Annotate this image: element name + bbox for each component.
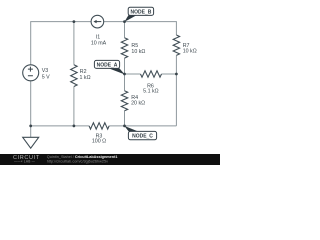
wire bottom-left segment	[31, 125, 89, 127]
resistor R6	[141, 71, 162, 77]
junction node B	[123, 20, 126, 23]
label I1	[91, 35, 107, 47]
junction ground	[29, 125, 32, 128]
resistor R2	[71, 65, 77, 87]
junction node A	[123, 73, 126, 76]
wire R2 column top lead	[73, 22, 75, 65]
svg-text:R5: R5	[131, 43, 138, 49]
svg-text:NODE_B: NODE_B	[130, 9, 151, 15]
wire NODE_A to R6	[125, 73, 141, 75]
junction bottom R2	[73, 125, 76, 128]
node NODE_A	[94, 60, 124, 74]
svg-text:20 kΩ: 20 kΩ	[131, 101, 145, 107]
svg-text:1 kΩ: 1 kΩ	[80, 75, 91, 81]
wire top-left segment	[31, 22, 91, 65]
junction R6-R7	[175, 73, 178, 76]
resistor R5	[121, 38, 127, 58]
svg-text:NODE_C: NODE_C	[132, 134, 153, 140]
svg-text:5 V: 5 V	[42, 74, 50, 80]
wire R2 column bottom lead	[73, 87, 75, 126]
ground	[23, 126, 39, 148]
current source I1	[91, 15, 104, 28]
wire left column below V3	[30, 81, 32, 126]
svg-text:V3: V3	[42, 68, 49, 74]
resistor R4	[121, 91, 127, 111]
voltage source V3	[23, 65, 39, 81]
label R5	[131, 43, 145, 55]
wire top-right segment	[104, 22, 177, 35]
svg-text:5.1 kΩ: 5.1 kΩ	[143, 89, 158, 95]
svg-text:100 Ω: 100 Ω	[92, 139, 106, 145]
wire right column R7 leads	[175, 55, 177, 126]
label R4	[131, 95, 145, 107]
wire R5 to NODE_A	[124, 58, 126, 74]
svg-text:10 kΩ: 10 kΩ	[131, 49, 145, 55]
svg-text:——× LAB —: ——× LAB —	[14, 160, 36, 164]
wire bottom-right segment	[109, 125, 176, 127]
wire R4 to NODE_C	[124, 111, 126, 126]
svg-text:10 mA: 10 mA	[91, 41, 107, 47]
junction top R2	[73, 20, 76, 23]
node NODE_C	[124, 126, 156, 140]
svg-text:I1: I1	[96, 35, 100, 41]
svg-text:NODE_A: NODE_A	[97, 63, 118, 69]
node NODE_B	[125, 7, 154, 22]
footer bar	[0, 154, 220, 165]
wire mid column NODE_B to R5	[124, 22, 126, 38]
label R2	[80, 69, 91, 81]
resistor R7	[173, 35, 179, 55]
label R3	[92, 133, 106, 144]
svg-text:http://circuitlab.com/c/3gj6u2: http://circuitlab.com/c/3gj6u26hw25v	[47, 159, 108, 163]
label V3	[42, 68, 50, 80]
label R6	[143, 83, 158, 94]
svg-text:10 kΩ: 10 kΩ	[183, 49, 197, 55]
label R7	[183, 43, 197, 55]
wire NODE_A to R4	[124, 74, 126, 91]
junction node C	[123, 125, 126, 128]
wire R6 to right column	[162, 73, 177, 75]
resistor R3	[89, 123, 109, 129]
